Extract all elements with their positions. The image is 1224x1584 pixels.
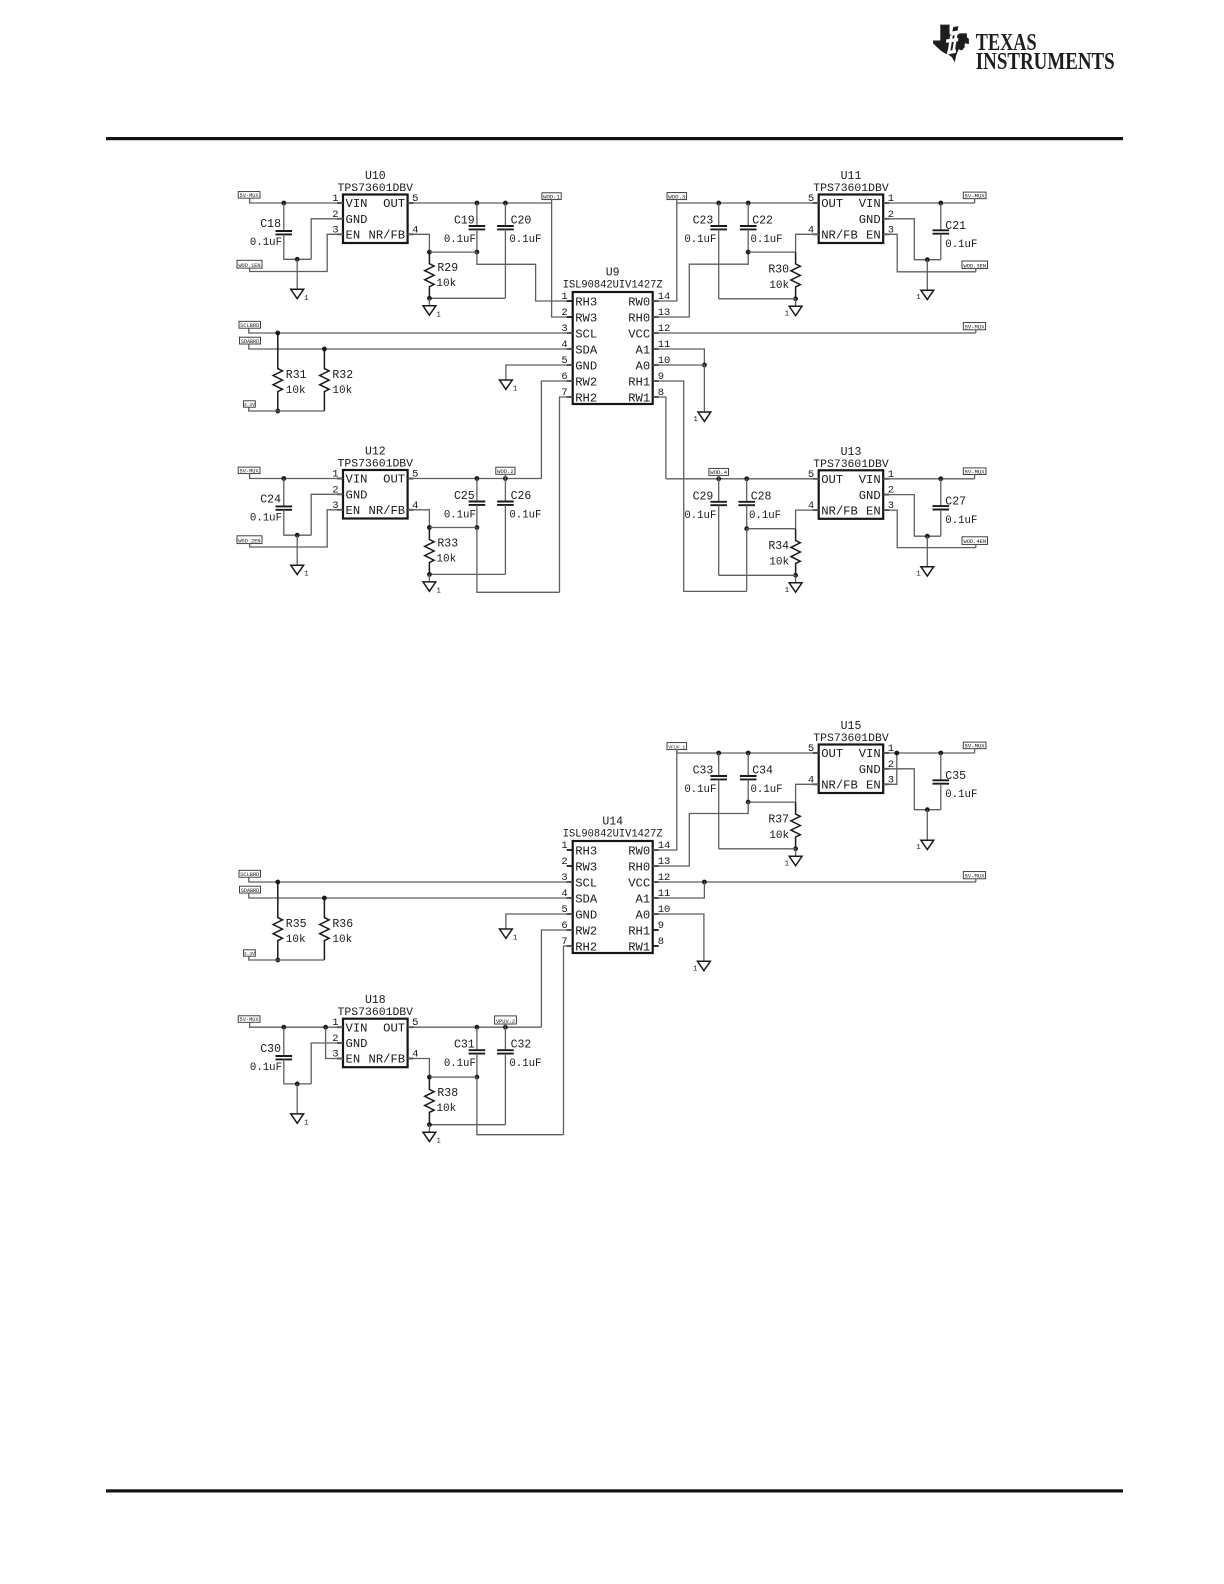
svg-text:10k: 10k [332, 385, 352, 397]
wire OUT net VPUV.2 [408, 1026, 542, 1028]
svg-text:5V-MUX: 5V-MUX [240, 1017, 260, 1023]
junction FB/capA [475, 250, 480, 255]
junction EN/VIN [894, 751, 899, 756]
svg-text:GND: GND [859, 763, 881, 777]
svg-text:10k: 10k [286, 385, 306, 397]
svg-text:VIN: VIN [346, 1021, 368, 1035]
wire C33 bottom rail [719, 848, 796, 850]
svg-text:C31: C31 [454, 1039, 475, 1052]
svg-text:0.1uF: 0.1uF [250, 1062, 282, 1074]
ground below resistor [795, 299, 797, 307]
wire U9 RH2 to C25 rail [560, 397, 573, 592]
wire FB rail [429, 527, 477, 529]
svg-text:3.3V: 3.3V [244, 402, 255, 408]
wire WOD.1EN to EN [250, 234, 343, 271]
svg-text:RH0: RH0 [628, 860, 650, 874]
svg-text:1: 1 [304, 1119, 309, 1127]
capacitor C28 [738, 479, 781, 529]
junction 3.3V rail [275, 958, 280, 963]
wire GND pin to ground rail [311, 219, 343, 259]
svg-text:C25: C25 [454, 490, 475, 503]
svg-text:1: 1 [785, 860, 790, 868]
wire 3.3V rail [249, 407, 325, 411]
capacitor C30 [250, 1027, 311, 1084]
svg-text:RH1: RH1 [628, 375, 650, 389]
wire VIN to 5V-MUX [883, 752, 974, 754]
net label stub WOD.2 [504, 474, 506, 478]
svg-text:RH2: RH2 [575, 940, 597, 954]
svg-text:WOD.2: WOD.2 [497, 468, 514, 475]
svg-text:SDABRD: SDABRD [241, 339, 259, 345]
IC U11 TPS73601DBV regulator [808, 170, 894, 243]
resistor R31 10k [273, 333, 307, 411]
TI logo bug (Texas map with ti) [933, 25, 969, 63]
svg-text:WOD.4: WOD.4 [710, 469, 728, 476]
svg-text:U12: U12 [365, 446, 386, 459]
svg-text:10k: 10k [332, 934, 352, 946]
svg-text:OUT: OUT [383, 197, 405, 211]
svg-text:0.1uF: 0.1uF [684, 234, 716, 246]
svg-text:EN: EN [866, 779, 881, 793]
IC U10 TPS73601DBV regulator [332, 170, 418, 243]
svg-text:TPS73601DBV: TPS73601DBV [813, 459, 889, 471]
capacitor C22 [740, 203, 783, 252]
svg-text:OUT: OUT [383, 1021, 405, 1035]
net label 5V-MUX [963, 468, 986, 475]
svg-text:1: 1 [436, 587, 441, 595]
junction input/cap [281, 201, 286, 206]
svg-text:GND: GND [575, 908, 597, 922]
wire FB rail [429, 1076, 477, 1078]
capacitor C21 [933, 203, 978, 260]
IC U12 TPS73601DBV regulator [332, 446, 418, 519]
svg-text:0.1uF: 0.1uF [444, 1058, 476, 1070]
junction ground node [295, 533, 300, 538]
junction OUT/capA [716, 476, 721, 481]
svg-text:RW0: RW0 [628, 844, 650, 858]
ground below resistor [428, 1125, 430, 1133]
net label WOD.3 [667, 193, 687, 201]
wire 5V-MUX to VIN [250, 474, 343, 479]
junction FB/capB [746, 800, 751, 805]
wire A0 to ground [653, 914, 704, 961]
wire SDA bus [249, 344, 573, 349]
svg-text:ISL90842UIV1427Z: ISL90842UIV1427Z [563, 280, 663, 292]
svg-text:R30: R30 [768, 264, 789, 277]
svg-text:ISL90842UIV1427Z: ISL90842UIV1427Z [563, 829, 663, 841]
svg-text:0.1uF: 0.1uF [509, 510, 541, 522]
junction R38 bottom [427, 1122, 432, 1127]
junction OUT/capA [475, 1025, 480, 1030]
svg-text:C35: C35 [945, 770, 966, 783]
wire OUT net WOD.1 [408, 202, 552, 204]
wire OUT net WOD.4 [666, 478, 819, 480]
wire 5V-MUX to VIN [250, 198, 343, 203]
wire C23 bottom rail [719, 298, 796, 300]
net label 5V-MUX [238, 467, 260, 474]
svg-text:0.1uF: 0.1uF [250, 237, 282, 249]
bottom rule [106, 1489, 1123, 1492]
svg-text:0.1uF: 0.1uF [945, 239, 977, 251]
ground [296, 1084, 298, 1114]
junction FB/capA [475, 525, 480, 530]
net label stub [974, 199, 976, 203]
svg-text:R29: R29 [437, 262, 458, 275]
capacitor C23 [684, 203, 727, 299]
wire NR/FB to resistor [796, 234, 819, 252]
svg-text:1: 1 [785, 310, 790, 318]
wire WOD.1 to U9 RW3 [552, 203, 573, 317]
svg-text:C27: C27 [945, 496, 966, 509]
wire OUT net WOD.2 [408, 478, 542, 480]
ground [926, 260, 928, 291]
svg-text:A1: A1 [636, 892, 651, 906]
ground [926, 810, 928, 841]
capacitor C20 [497, 203, 541, 298]
wire FB rail [748, 801, 795, 803]
svg-text:1: 1 [693, 416, 698, 424]
svg-text:1: 1 [304, 571, 309, 579]
net label SDABRD [240, 337, 261, 345]
wire C32 bottom [429, 1124, 505, 1126]
ground at A0 [693, 412, 710, 424]
net label SDABRD [240, 886, 261, 894]
wire U14 RW2 to VPUV.2 [541, 930, 572, 1027]
svg-text:1: 1 [785, 587, 790, 595]
wire U9 RW1 to WOD.4 [653, 397, 666, 479]
svg-text:C29: C29 [693, 490, 714, 503]
svg-text:RW1: RW1 [628, 391, 650, 405]
svg-text:C21: C21 [945, 220, 966, 233]
svg-text:U9: U9 [606, 267, 620, 280]
svg-text:VIN: VIN [859, 473, 881, 487]
wire NR/FB to resistor [796, 784, 819, 802]
svg-text:U11: U11 [841, 170, 862, 183]
svg-text:GND: GND [346, 1037, 368, 1051]
resistor R34 10k [768, 529, 800, 576]
svg-text:10k: 10k [769, 830, 789, 842]
junction FB [427, 1075, 432, 1080]
wire EN to WOD.3EN [883, 234, 976, 271]
svg-text:C20: C20 [511, 215, 532, 228]
wire GND pin 5 [506, 365, 573, 380]
net label WOD.2 [496, 467, 515, 475]
wire C26 bottom [429, 573, 505, 575]
svg-text:SCLBRD: SCLBRD [240, 323, 259, 329]
junction input/cap [281, 476, 286, 481]
svg-text:C18: C18 [260, 218, 281, 231]
wire NR/FB to resistor [796, 510, 819, 529]
wire C28 bottom to RH1 rail [746, 529, 748, 592]
svg-text:RH2: RH2 [575, 391, 597, 405]
resistor R35 10k [273, 882, 307, 960]
wire GND pin 5 [506, 914, 573, 929]
svg-text:10k: 10k [286, 934, 306, 946]
svg-text:WOD.2EN: WOD.2EN [238, 538, 260, 544]
svg-text:RW2: RW2 [575, 375, 597, 389]
svg-text:VFUV.1: VFUV.1 [668, 744, 685, 750]
svg-text:EN: EN [866, 504, 881, 518]
svg-text:RW3: RW3 [575, 311, 597, 325]
svg-text:U18: U18 [365, 994, 386, 1007]
capacitor C27 [933, 479, 978, 536]
capacitor C18 [250, 203, 311, 259]
wire GND pin to ground rail [311, 1043, 343, 1084]
junction FB [427, 250, 432, 255]
svg-text:C28: C28 [751, 490, 772, 503]
svg-text:SCL: SCL [575, 327, 597, 341]
svg-text:VIN: VIN [859, 197, 881, 211]
net label stub WOD.4 [718, 475, 720, 478]
svg-text:VIN: VIN [859, 747, 881, 761]
junction FB [427, 525, 432, 530]
ground below resistor [428, 298, 430, 306]
wire 3.3V rail [249, 956, 325, 960]
wire U9 RH1 to C28 rail [653, 381, 747, 591]
svg-text:NR/FB: NR/FB [821, 779, 858, 793]
svg-text:NR/FB: NR/FB [369, 504, 406, 518]
resistor R33 10k [425, 528, 459, 575]
junction SDA/R [322, 896, 327, 901]
wire 5V-MUX to VIN [250, 1022, 343, 1027]
svg-text:C19: C19 [454, 215, 475, 228]
svg-text:OUT: OUT [821, 747, 843, 761]
svg-text:INSTRUMENTS: INSTRUMENTS [976, 48, 1115, 75]
IC U13 TPS73601DBV regulator [808, 446, 894, 519]
wire U9 RW0 to WOD.3 [653, 203, 677, 301]
svg-text:SCL: SCL [575, 876, 597, 890]
svg-text:5V-MUX: 5V-MUX [240, 193, 260, 199]
ground [296, 259, 298, 289]
svg-text:10k: 10k [436, 1103, 456, 1115]
IC U15 TPS73601DBV regulator [808, 720, 894, 793]
svg-text:WOD.1: WOD.1 [543, 193, 560, 200]
svg-text:U15: U15 [841, 720, 862, 733]
svg-text:1: 1 [513, 386, 518, 394]
net label 5V-MUX [963, 192, 986, 199]
junction OUT/capA [716, 201, 721, 206]
junction R34 bottom [793, 573, 798, 578]
svg-text:OUT: OUT [383, 473, 405, 487]
IC U14 ISL90842UIV1427Z digital potentiometer [561, 816, 670, 955]
net label WOD.2EN [237, 536, 262, 545]
svg-text:1: 1 [304, 295, 309, 303]
wire SCL bus [249, 328, 573, 333]
ground below resistor [795, 849, 797, 857]
net label SCLBRD [239, 321, 261, 329]
svg-text:1: 1 [436, 1138, 441, 1146]
svg-text:R36: R36 [332, 918, 353, 931]
resistor R36 10k [320, 898, 354, 960]
svg-text:NR/FB: NR/FB [821, 504, 858, 518]
svg-text:TPS73601DBV: TPS73601DBV [338, 183, 414, 195]
svg-text:NR/FB: NR/FB [821, 229, 858, 243]
wire FB net extension [477, 1077, 564, 1135]
svg-text:GND: GND [859, 489, 881, 503]
svg-text:1: 1 [916, 571, 921, 579]
svg-text:R35: R35 [286, 918, 307, 931]
IC U18 TPS73601DBV regulator [332, 994, 418, 1067]
capacitor C33 [684, 753, 727, 849]
svg-text:EN: EN [866, 229, 881, 243]
capacitor C24 [250, 479, 311, 536]
net label stub [974, 475, 976, 479]
svg-text:U10: U10 [365, 170, 386, 183]
junction input/cap [281, 1025, 286, 1030]
junction SCL/R [275, 331, 280, 336]
junction ground node [295, 257, 300, 262]
svg-text:SDA: SDA [575, 343, 598, 357]
junction ground node [295, 1082, 300, 1087]
ground below resistor [795, 575, 797, 583]
net label WOD.4 [709, 468, 729, 476]
resistor R38 10k [425, 1077, 459, 1125]
junction R29 bottom [427, 296, 432, 301]
svg-text:SCLBRD: SCLBRD [240, 872, 259, 878]
wire NR/FB to resistor [408, 510, 430, 528]
junction VIN/cap [938, 751, 943, 756]
net label WOD.4EN [962, 537, 988, 545]
junction OUT/capB [746, 201, 751, 206]
net label 3.3V [244, 950, 256, 957]
ground at pin 5 [500, 380, 518, 394]
svg-text:0.1uF: 0.1uF [509, 234, 541, 246]
svg-text:SDA: SDA [575, 892, 598, 906]
svg-text:U14: U14 [602, 816, 623, 829]
capacitor C31 [444, 1027, 485, 1077]
svg-text:TPS73601DBV: TPS73601DBV [813, 733, 889, 745]
net label stub WOD.1 [551, 200, 553, 203]
svg-text:0.1uF: 0.1uF [945, 515, 977, 527]
svg-text:U13: U13 [841, 446, 862, 459]
svg-text:0.1uF: 0.1uF [945, 789, 977, 801]
svg-text:5V-MUX: 5V-MUX [965, 193, 986, 200]
wire U14 RW0 to VFUV.1 [653, 753, 677, 850]
wire OUT net WOD.3 [677, 202, 819, 204]
junction OUT/capA [716, 751, 721, 756]
svg-text:3.3V: 3.3V [244, 951, 255, 957]
resistor R30 10k [768, 252, 800, 299]
net label stub VPUV.2 [504, 1024, 506, 1027]
wire NR/FB to resistor [408, 234, 430, 252]
svg-text:WOD.3EN: WOD.3EN [963, 263, 986, 269]
svg-text:VIN: VIN [346, 473, 368, 487]
svg-text:TPS73601DBV: TPS73601DBV [338, 1007, 414, 1019]
wire A0 to ground [653, 365, 705, 412]
junction ground node [925, 807, 930, 812]
net label 5V-MUX [238, 1016, 260, 1023]
ground [926, 536, 928, 567]
junction A0 [702, 363, 707, 368]
junction VCC/A1 [702, 880, 707, 885]
svg-text:0.1uF: 0.1uF [250, 513, 282, 525]
net label 3.3V [244, 401, 256, 408]
svg-text:NR/FB: NR/FB [369, 229, 406, 243]
wire GND pin to ground [883, 769, 941, 810]
svg-text:0.1uF: 0.1uF [684, 510, 716, 522]
svg-text:R38: R38 [437, 1087, 458, 1100]
junction OUT/capB [744, 476, 749, 481]
resistor R29 10k [425, 252, 459, 298]
svg-text:EN: EN [346, 504, 361, 518]
svg-text:OUT: OUT [821, 197, 843, 211]
wire NR/FB to resistor [408, 1059, 430, 1078]
svg-text:VIN: VIN [346, 197, 368, 211]
svg-text:EN: EN [346, 1053, 361, 1067]
ground [296, 535, 298, 565]
junction R33 bottom [427, 572, 432, 577]
svg-text:RW0: RW0 [628, 295, 650, 309]
wire U9 RH0 to U11 FB [653, 252, 749, 317]
junction FB/capB [746, 250, 751, 255]
svg-text:1: 1 [916, 844, 921, 852]
svg-text:VCC: VCC [628, 327, 650, 341]
svg-text:RH0: RH0 [628, 311, 650, 325]
net label 5V-MUX [963, 323, 985, 331]
junction ground node [925, 534, 930, 539]
wire SDA bus [249, 893, 573, 898]
ground at A0 [693, 961, 710, 973]
capacitor C35 [933, 753, 978, 810]
svg-text:5V-MUX: 5V-MUX [965, 743, 986, 750]
svg-text:RW2: RW2 [575, 924, 597, 938]
net label stub 5V-MUX [975, 879, 977, 882]
svg-text:RH3: RH3 [575, 295, 597, 309]
svg-text:GND: GND [575, 359, 597, 373]
svg-text:GND: GND [346, 213, 368, 227]
svg-text:C23: C23 [693, 215, 714, 228]
svg-text:RH3: RH3 [575, 844, 597, 858]
junction EN tie [323, 1025, 328, 1030]
junction FB/capA [475, 1075, 480, 1080]
svg-text:VCC: VCC [628, 876, 650, 890]
net label stub 5V-MUX [975, 330, 977, 333]
wire A1 to VCC [653, 882, 705, 898]
svg-text:R33: R33 [437, 538, 458, 551]
junction R37 bottom [793, 846, 798, 851]
net label VFUV.1 [667, 743, 687, 751]
net label SCLBRD [239, 870, 261, 878]
svg-text:10k: 10k [436, 278, 456, 290]
IC U9 ISL90842UIV1427Z digital potentiometer [561, 267, 670, 406]
resistor R32 10k [320, 349, 354, 411]
wire C20 bottom [429, 297, 505, 299]
svg-text:TPS73601DBV: TPS73601DBV [338, 459, 414, 471]
junction SCL/R [275, 880, 280, 885]
svg-text:R37: R37 [768, 814, 789, 827]
capacitor C25 [444, 479, 485, 528]
svg-text:0.1uF: 0.1uF [444, 510, 476, 522]
junction OUT/capB [503, 1025, 508, 1030]
svg-text:R32: R32 [332, 369, 353, 382]
wire EN to VIN [326, 1027, 343, 1058]
svg-text:1: 1 [693, 965, 698, 973]
wire GND pin to ground [883, 219, 941, 260]
svg-text:NR/FB: NR/FB [369, 1053, 406, 1067]
wire EN to WOD.4EN [883, 510, 976, 547]
svg-text:C26: C26 [511, 490, 532, 503]
wire C29 bottom rail [719, 574, 796, 576]
svg-text:C22: C22 [752, 215, 773, 228]
svg-text:C32: C32 [511, 1039, 532, 1052]
svg-text:OUT: OUT [821, 473, 843, 487]
junction VIN/cap [938, 201, 943, 206]
svg-text:0.1uF: 0.1uF [444, 234, 476, 246]
svg-text:1: 1 [513, 935, 518, 943]
svg-text:0.1uF: 0.1uF [751, 784, 783, 796]
wire VIN to 5V-MUX [883, 478, 974, 480]
svg-text:VPUV.2: VPUV.2 [496, 1019, 515, 1025]
